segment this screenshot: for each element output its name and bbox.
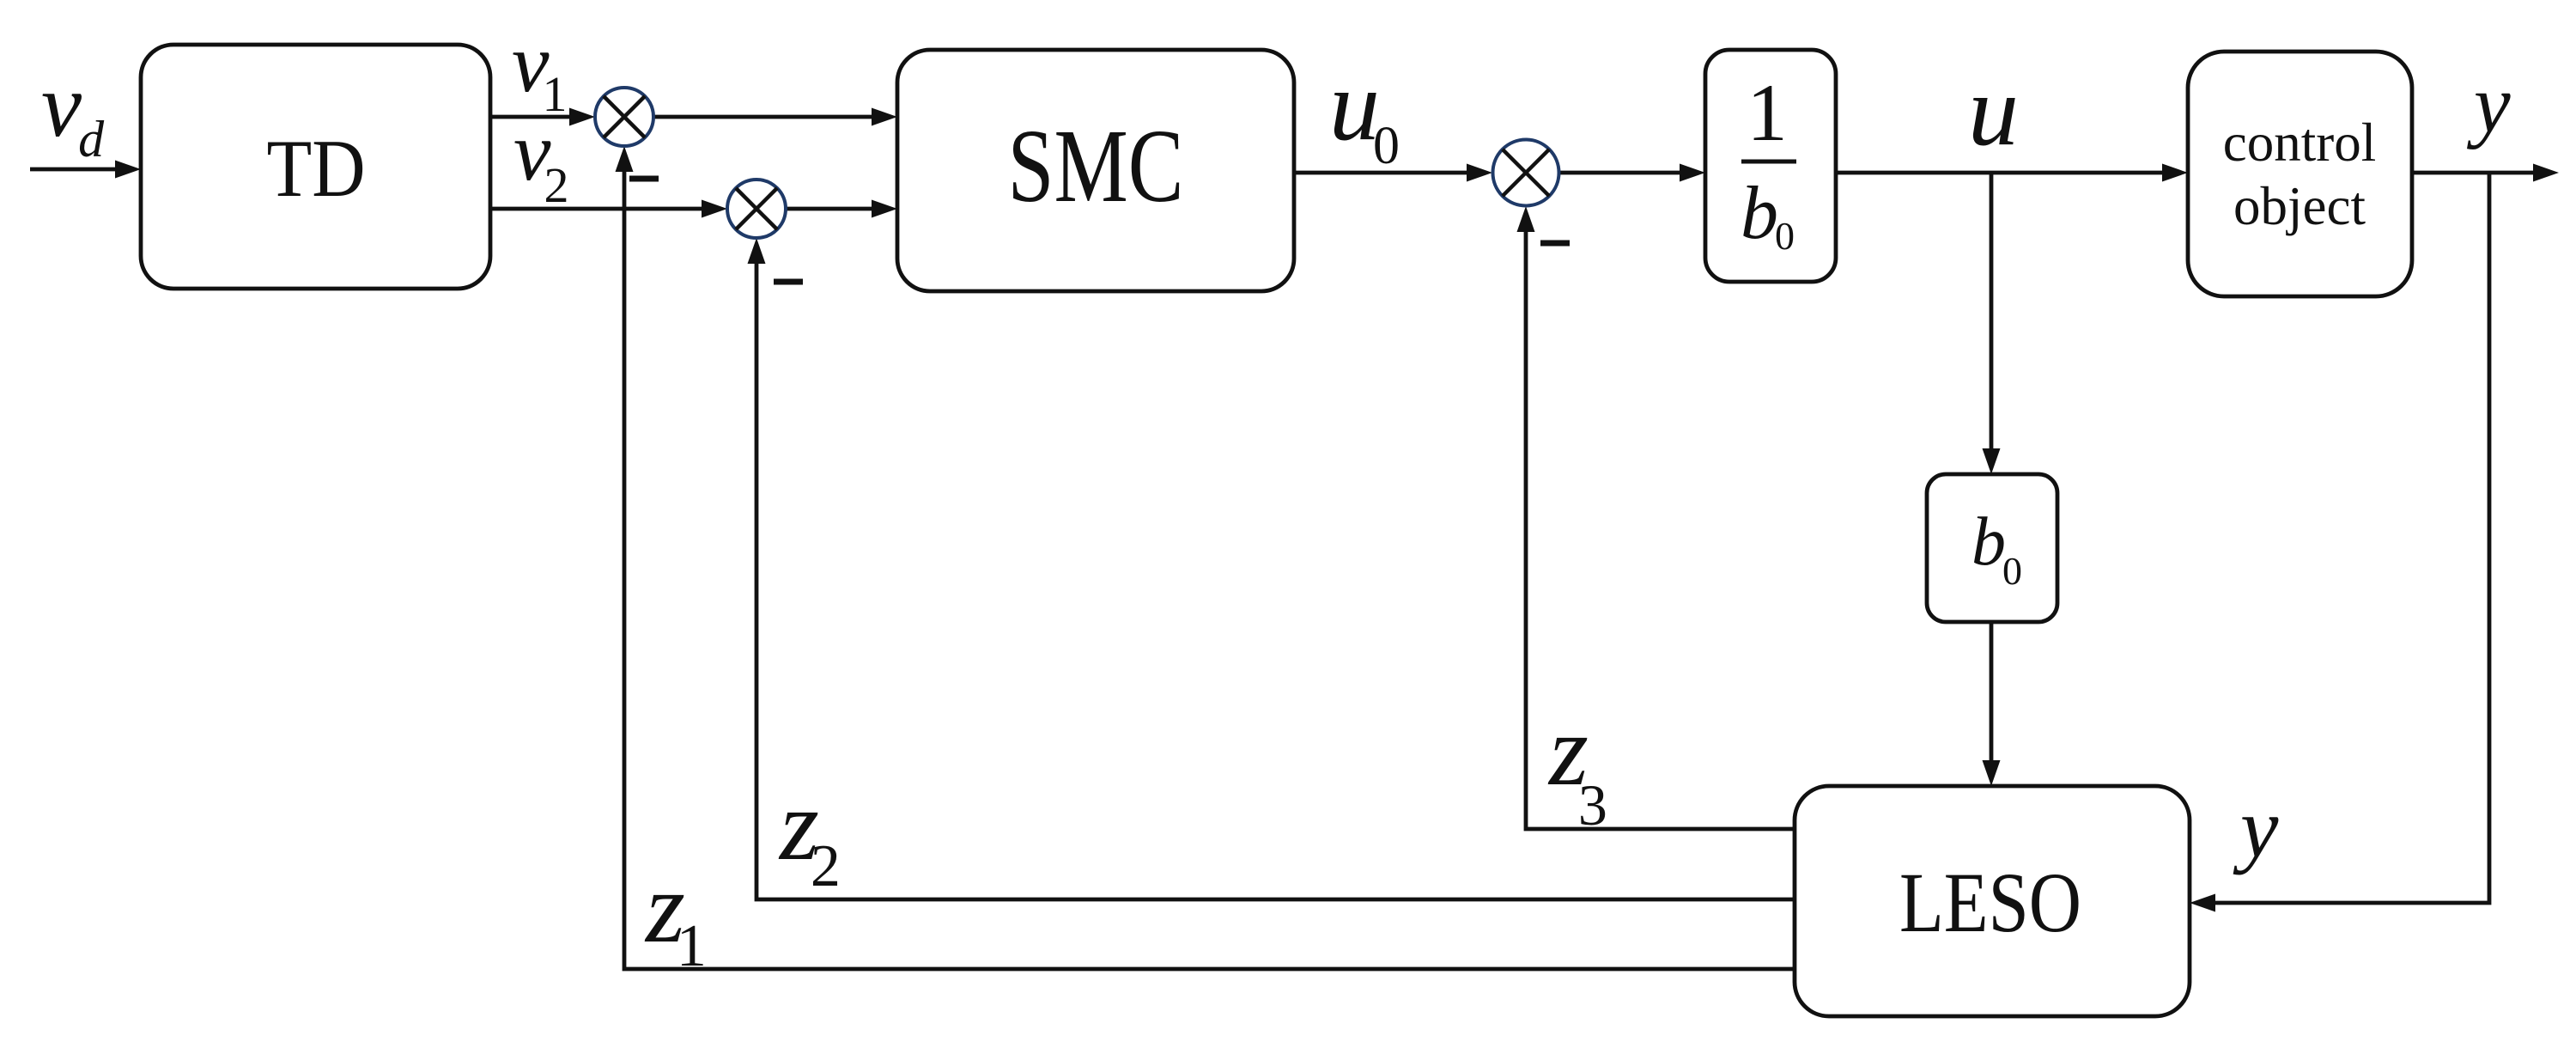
minus sign at J1: [629, 176, 659, 182]
block SMC: [897, 50, 1294, 291]
wire y feedback down and into LESO: [2190, 173, 2489, 912]
block TD: [141, 45, 490, 289]
minus sign at J3: [1540, 241, 1570, 247]
block LESO: [1795, 786, 2190, 1016]
wire J2 to SMC: [786, 200, 897, 218]
wire 1/b0 to control object with branch node: [1836, 164, 2188, 182]
minus sign at J2: [774, 279, 803, 285]
svg-text:TD: TD: [267, 123, 366, 214]
block control object: [2188, 52, 2412, 296]
wire z3: LESO to junction J3: [1517, 206, 1795, 829]
svg-text:SMC: SMC: [1008, 108, 1184, 224]
svg-text:y: y: [2233, 780, 2279, 875]
wire control object output y: [2412, 164, 2559, 182]
wire J1 to SMC: [653, 108, 897, 126]
block 1/b0 gain: [1705, 50, 1836, 282]
wire z1: LESO to junction J1: [616, 146, 1795, 969]
wire b0 to LESO: [1983, 622, 2001, 786]
block b0 gain: [1927, 474, 2057, 622]
summing junction J3: [1493, 140, 1559, 206]
summing junction J1: [595, 88, 653, 146]
svg-text:LESO: LESO: [1899, 855, 2081, 950]
wire u0: SMC to junction J3: [1294, 164, 1492, 182]
wire z2: LESO to junction J2: [748, 238, 1795, 899]
wire v2: TD to junction J2: [490, 200, 727, 218]
wire u branch down to b0: [1983, 173, 2001, 474]
wire v1: TD to junction J1: [490, 108, 595, 126]
svg-text:1: 1: [1747, 67, 1788, 158]
svg-text:control: control: [2223, 113, 2376, 173]
summing junction J2: [727, 180, 786, 238]
wire vd input arrow: [30, 161, 141, 179]
svg-text:object: object: [2233, 176, 2366, 236]
svg-text:u: u: [1968, 54, 2019, 167]
wire J3 to 1/b0 block: [1559, 164, 1705, 182]
